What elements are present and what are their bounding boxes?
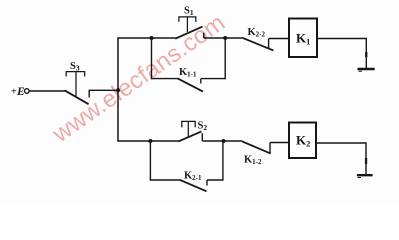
contact K2-1 branch: left horizontal <box>150 179 180 181</box>
contact K2-1 <box>180 180 207 192</box>
svg-text:K2-1: K2-1 <box>184 171 202 183</box>
contact K2-1 branch: right vertical <box>222 140 224 180</box>
wire top rail left <box>117 37 175 39</box>
wire +E to S3 <box>29 90 65 92</box>
svg-text:S3: S3 <box>70 61 80 73</box>
junction dot top rail B <box>223 36 227 40</box>
contact K1-2 <box>242 141 271 153</box>
pushbutton S3 <box>65 72 90 105</box>
contact K1-1 <box>178 78 203 91</box>
wire top rail middle <box>204 37 244 39</box>
tick on K1 ground wire <box>365 52 367 57</box>
pushbutton S1 <box>175 17 203 39</box>
contact K1-1 branch: right vertical <box>224 37 226 79</box>
svg-text:S1: S1 <box>184 6 194 18</box>
terminal +E <box>25 89 30 94</box>
wire coil K1 to ground <box>317 39 366 69</box>
wire coil K2 to ground <box>316 143 366 175</box>
svg-text:K1-2: K1-2 <box>244 155 262 167</box>
relay coil K2 <box>289 123 316 159</box>
junction dot top rail A <box>150 36 154 40</box>
svg-text:S2: S2 <box>198 121 208 133</box>
wire bottom rail left <box>117 140 178 142</box>
ground (K1) <box>358 69 375 71</box>
junction dot at bus/S3 <box>116 88 120 92</box>
contact K1-1 branch: left vertical <box>151 37 153 79</box>
wire K2-2 to coil K1 <box>269 38 289 40</box>
junction dot bottom rail B <box>222 139 226 143</box>
pushbutton S2 <box>178 121 202 141</box>
contact K1-1 branch: left horizontal <box>151 78 178 80</box>
svg-text:K2-2: K2-2 <box>248 27 266 39</box>
contact K2-1 branch: right horizontal <box>207 179 224 181</box>
contact K2-2 <box>244 38 274 50</box>
wire vertical bus <box>117 37 119 141</box>
relay coil K1 <box>289 19 317 58</box>
contact K2-1 branch: left vertical <box>149 140 151 180</box>
junction dot bottom rail A <box>148 139 152 143</box>
wire S3 to bus <box>89 89 118 91</box>
wire bottom rail middle <box>202 140 242 142</box>
contact K1-1 branch: right horizontal <box>201 78 226 80</box>
watermark www.elecfans.com <box>47 9 230 148</box>
ground (K2) <box>357 175 373 177</box>
svg-text:K1-1: K1-1 <box>179 67 197 79</box>
tick on K2 ground wire <box>365 158 367 164</box>
svg-text:E: E <box>16 86 25 98</box>
wire K1-2 to coil K2 <box>270 142 289 144</box>
